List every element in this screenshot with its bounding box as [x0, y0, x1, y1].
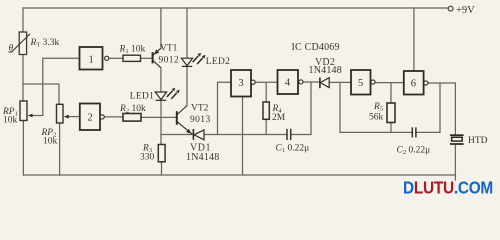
- inverter gate 2: [80, 104, 104, 131]
- diode VD1: [193, 129, 204, 140]
- wire R4 bottom stub: [265, 119, 267, 134]
- svg-text:5: 5: [358, 78, 363, 89]
- svg-text:LED1: LED1: [130, 91, 154, 101]
- wire RP2 wiper to gate2 input: [69, 116, 80, 118]
- wire gate6 power pin to rail: [413, 8, 415, 71]
- svg-text:10k: 10k: [3, 115, 18, 125]
- wire RT to RP1: [22, 55, 24, 102]
- inverter gate 1: [80, 47, 109, 70]
- wire gate4 out to VD2: [303, 81, 320, 83]
- svg-text:LED2: LED2: [206, 57, 230, 67]
- wire R5 bottom stub: [390, 123, 392, 133]
- inverter gate 3: [231, 70, 255, 97]
- diode VD2: [320, 77, 329, 88]
- wire RP1 wiper to gate1 input: [31, 58, 80, 115]
- wire gate3 input riser: [218, 82, 232, 134]
- svg-text:4: 4: [285, 78, 291, 89]
- svg-text:IC CD4069: IC CD4069: [292, 42, 340, 53]
- potentiometer RP1: [20, 101, 33, 121]
- wire ground bottom rail: [23, 174, 455, 176]
- wire VD1 to C1, oscillator bottom net: [204, 134, 287, 136]
- wire LED1 to base junction, R3 column: [160, 100, 162, 144]
- buzzer HTD: [450, 135, 464, 144]
- svg-text:VT2: VT2: [191, 104, 209, 114]
- wire node to RP2 top: [23, 84, 59, 104]
- capacitor C1: [287, 129, 291, 140]
- resistor R1: [123, 55, 141, 61]
- svg-text:+9V: +9V: [456, 5, 475, 16]
- svg-text:6: 6: [411, 78, 416, 89]
- svg-text:θ: θ: [9, 44, 14, 54]
- wire gate5 out to gate6 in: [375, 82, 404, 84]
- LED LED2: [181, 53, 205, 67]
- transistor VT1: [153, 48, 161, 68]
- wire gate1 out to R1: [109, 57, 123, 59]
- node +9V terminal: [448, 6, 453, 11]
- wire R1 to VT1 base: [141, 57, 153, 59]
- wire LED2 to VT2 collector: [186, 66, 188, 105]
- svg-text:VT1: VT1: [160, 44, 178, 54]
- inverter gate 6: [404, 71, 428, 95]
- svg-text:HTD: HTD: [468, 136, 488, 146]
- svg-text:DLUTU.COM: DLUTU.COM: [403, 178, 493, 196]
- transistor VT2: [177, 106, 192, 135]
- wire R3 bottom to ground rail: [161, 162, 163, 175]
- resistor R4: [263, 102, 269, 119]
- wire gate3 out to gate4 in: [255, 81, 277, 83]
- LED LED1: [155, 88, 180, 101]
- svg-text:10k: 10k: [43, 136, 58, 146]
- svg-text:R1 10k: R1 10k: [119, 45, 146, 56]
- svg-text:56k: 56k: [369, 113, 384, 123]
- svg-text:9013: 9013: [190, 115, 211, 125]
- svg-text:C1 0.22μ: C1 0.22μ: [276, 144, 310, 155]
- potentiometer RP2: [57, 104, 69, 123]
- wire HTD bottom lead: [454, 145, 456, 180]
- wire emitter net horizontal to VD1: [161, 134, 193, 136]
- wire top +9V rail: [23, 7, 448, 9]
- svg-text:C2 0.22μ: C2 0.22μ: [397, 146, 431, 157]
- svg-text:1N4148: 1N4148: [309, 65, 342, 76]
- inverter gate 5: [351, 70, 375, 95]
- resistor R3: [158, 145, 165, 162]
- svg-text:RT 3.3k: RT 3.3k: [30, 38, 60, 49]
- svg-text:2: 2: [88, 113, 93, 124]
- wire gate2 out to R2: [104, 116, 123, 118]
- wire RP2 bottom to ground rail: [59, 123, 61, 175]
- wire R4 riser top: [265, 82, 267, 102]
- wire gate3 bottom to ground rail: [242, 97, 244, 176]
- wire R5 riser top: [390, 83, 392, 103]
- wire gate6 out to HTD: [428, 83, 455, 134]
- thermistor RT: [9, 32, 31, 55]
- wire LED2 column from rail: [186, 8, 188, 58]
- wire RP1 bottom to ground rail: [22, 121, 24, 176]
- svg-text:2M: 2M: [272, 113, 286, 123]
- wire R2 to VT2 base: [141, 116, 177, 118]
- wire VT1 emitter column to rail: [160, 8, 162, 48]
- svg-text:R2 10k: R2 10k: [119, 104, 146, 115]
- wire C1 right to gate4 output riser: [291, 82, 311, 134]
- svg-text:1N4148: 1N4148: [186, 152, 219, 163]
- wire VD2 to gate5 input: [329, 81, 351, 83]
- wire VT1 collector to LED1: [160, 68, 162, 92]
- svg-text:3: 3: [238, 78, 243, 89]
- wire C2 right to gate6 output riser: [416, 83, 440, 132]
- resistor R2: [123, 114, 141, 122]
- capacitor C2: [412, 127, 416, 137]
- resistor R5: [387, 103, 395, 123]
- svg-text:330: 330: [140, 153, 155, 163]
- svg-text:1: 1: [89, 54, 94, 65]
- inverter gate 4: [278, 70, 304, 94]
- wire C2 left riser: [340, 82, 412, 132]
- wire left column top: [22, 8, 24, 32]
- svg-text:9012: 9012: [159, 56, 180, 66]
